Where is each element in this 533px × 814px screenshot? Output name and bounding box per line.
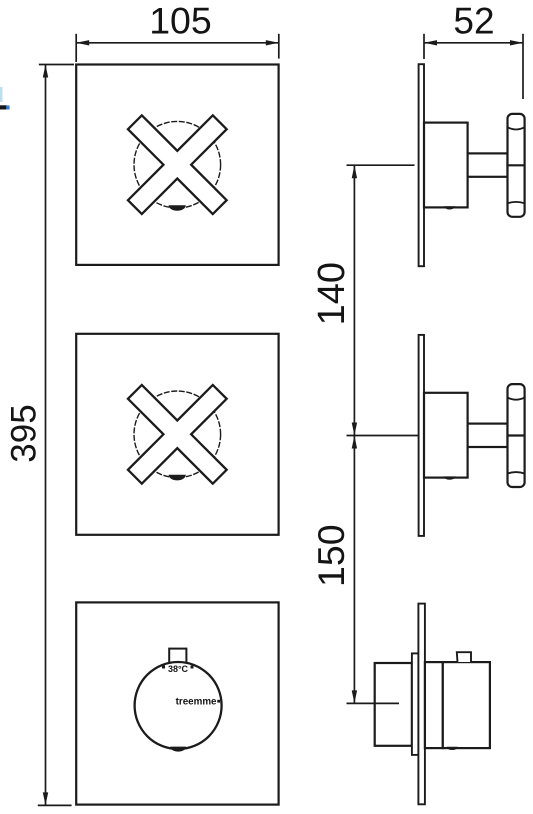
knob spacer side bbox=[425, 662, 443, 748]
side stem 2 bbox=[468, 424, 508, 447]
side handle 1 bbox=[508, 114, 525, 217]
handle 1 bottom indicator bbox=[169, 205, 186, 211]
handle 2 bottom indicator bbox=[169, 475, 186, 481]
DIMENSION 140 bbox=[311, 165, 418, 435]
side plate 2 bbox=[419, 335, 424, 536]
handle 1 dashed circle bbox=[134, 121, 221, 208]
flange behind plate bbox=[412, 653, 419, 755]
knob body side bbox=[443, 662, 490, 748]
cropped glyph at left margin bbox=[0, 87, 10, 110]
front plate 2 (middle square) bbox=[76, 334, 278, 535]
side body 2 bbox=[424, 393, 468, 478]
side body indicator 2 bbox=[444, 476, 456, 479]
svg-text:140: 140 bbox=[311, 262, 353, 325]
front plate 1 (top square) bbox=[76, 65, 278, 265]
svg-text:150: 150 bbox=[310, 524, 352, 587]
knob bottom indicator bbox=[170, 747, 186, 752]
knob tab side bbox=[457, 652, 471, 662]
side handle 2 bbox=[508, 384, 525, 487]
cross handle 1 (union of two bars) bbox=[92, 80, 262, 250]
svg-text:395: 395 bbox=[4, 404, 43, 462]
side stem 1 bbox=[468, 153, 508, 176]
cross handle 2 (union of two bars) bbox=[92, 349, 262, 519]
svg-text:38°C: 38°C bbox=[168, 664, 189, 674]
svg-text:105: 105 bbox=[149, 0, 212, 41]
rough-in box behind wall bbox=[375, 663, 412, 746]
side body indicator 1 bbox=[444, 206, 455, 209]
side plate 3 bbox=[418, 604, 425, 805]
thermostat knob circle bbox=[135, 662, 222, 749]
handle 2 dashed circle bbox=[134, 391, 221, 478]
svg-text:treemme: treemme bbox=[176, 696, 217, 707]
side body 1 bbox=[424, 123, 468, 208]
knob side indicator bbox=[447, 747, 458, 750]
front plate 3 (bottom square) bbox=[76, 602, 278, 804]
thermostat knob tab (38C button) front bbox=[169, 649, 186, 664]
DIMENSION 52 bbox=[424, 1, 523, 99]
svg-text:52: 52 bbox=[453, 1, 494, 42]
side plate 1 bbox=[419, 64, 424, 266]
DIMENSION 150 bbox=[310, 436, 399, 704]
DIMENSION 395 bbox=[4, 65, 74, 806]
DIMENSION 105 bbox=[76, 0, 279, 62]
